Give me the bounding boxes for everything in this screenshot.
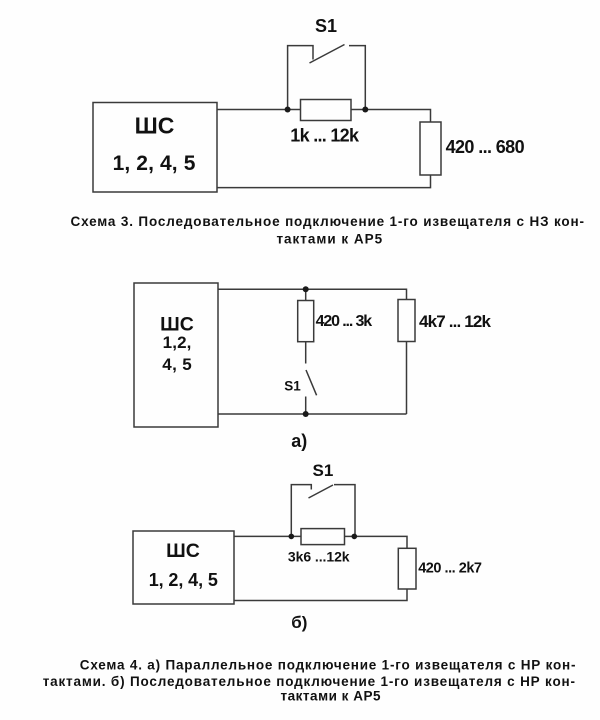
wire: box to resistor 3k6…12k <box>234 535 301 537</box>
svg-text:Схема 4. а) Параллельное подкл: Схема 4. а) Параллельное подключение 1-г… <box>80 658 576 673</box>
wire: node F to resistor R6 top <box>354 536 407 548</box>
svg-text:Схема 3. Последовательное подк: Схема 3. Последовательное подключение 1-… <box>71 214 585 229</box>
svg-text:420 ... 2k7: 420 ... 2k7 <box>418 561 482 577</box>
wire: box top to resistor 4k7…12k <box>218 289 407 299</box>
resistor R4 4k7…12k (vertical) <box>398 300 415 342</box>
svg-text:а): а) <box>291 431 307 451</box>
node D (bottom junction, Схема 4а) <box>303 411 309 417</box>
device box ШС 1,2,4,5 (Схема 3) <box>93 103 217 193</box>
wire: resistor R6 bottom return to box <box>234 589 407 601</box>
svg-text:б): б) <box>291 613 307 632</box>
wire: bottom return to box (Схема 4а) <box>218 413 407 415</box>
wire: resistor R1 to node B <box>351 109 365 111</box>
node B (right junction, Схема 3) <box>362 107 368 113</box>
svg-text:S1: S1 <box>284 379 301 394</box>
svg-text:1k ... 12k: 1k ... 12k <box>290 126 360 146</box>
svg-text:4, 5: 4, 5 <box>162 355 191 374</box>
resistor R3 420…3k (vertical) <box>298 301 314 342</box>
switch S1 (NC contact) <box>288 45 366 110</box>
svg-text:1,2,: 1,2, <box>163 333 192 352</box>
wire: node B to resistor R2 top <box>365 110 430 123</box>
svg-text:420 ... 680: 420 ... 680 <box>446 137 525 157</box>
svg-text:420 ... 3k: 420 ... 3k <box>316 313 373 330</box>
node C (top junction, Схема 4а) <box>303 286 309 292</box>
svg-text:1, 2, 4, 5: 1, 2, 4, 5 <box>113 152 196 175</box>
wire: resistor R2 bottom return to box <box>217 175 431 188</box>
resistor R1 1k…12k (horizontal) <box>301 100 352 121</box>
node F (right junction, Схема 4б) <box>352 534 358 540</box>
resistor R2 420…680 (vertical) <box>420 122 441 175</box>
resistor R6 420…2k7 (vertical) <box>398 548 416 589</box>
device box ШС 1,2,4,5 (Схема 4б) <box>133 531 234 604</box>
switch S1 (Схема 4б, NO contact) <box>291 485 355 537</box>
svg-text:ШС: ШС <box>135 113 175 139</box>
svg-text:тактами к АР5: тактами к АР5 <box>281 689 381 704</box>
svg-text:тактами к АР5: тактами к АР5 <box>276 232 382 247</box>
wire: box to resistor 1k…12k <box>217 109 301 111</box>
svg-text:4k7 ... 12k: 4k7 ... 12k <box>419 312 492 331</box>
svg-text:S1: S1 <box>313 461 334 480</box>
svg-text:1, 2, 4, 5: 1, 2, 4, 5 <box>149 570 218 590</box>
wire: node C to resistor 420…3k top <box>305 289 307 300</box>
resistor R5 3k6…12k (horizontal) <box>301 529 345 545</box>
node E (left junction, Схема 4б) <box>289 534 295 540</box>
node A (left junction, Схема 3) <box>285 107 291 113</box>
device box ШС 1,2,4,5 (Схема 4а) <box>134 283 218 427</box>
wire: resistor R5 to node F <box>345 535 355 537</box>
svg-text:S1: S1 <box>315 16 337 36</box>
svg-text:ШС: ШС <box>166 540 200 562</box>
svg-text:тактами. б) Последовательное п: тактами. б) Последовательное подключение… <box>43 674 575 689</box>
wire: resistor R4 bottom to return wire <box>406 342 408 415</box>
svg-text:3k6 ...12k: 3k6 ...12k <box>288 549 350 565</box>
switch S1 (Схема 4а, NO contact) <box>306 342 317 414</box>
